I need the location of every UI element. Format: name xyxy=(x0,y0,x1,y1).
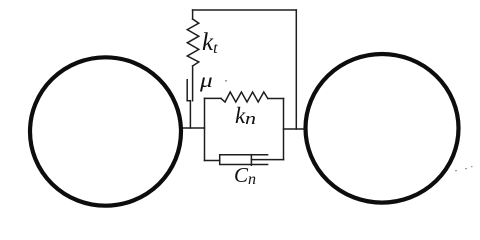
scan speckles xyxy=(225,80,473,171)
wire right contact line xyxy=(284,128,305,130)
wire right side of tangential loop xyxy=(295,10,297,129)
wire left vertical of normal branch xyxy=(204,98,206,160)
friction slider plate (mu) xyxy=(186,80,188,101)
wire left lead of spring kn xyxy=(205,97,222,99)
dashpot cn piston rod xyxy=(251,159,283,161)
dashpot cn cylinder xyxy=(220,155,268,165)
particle circle right xyxy=(306,54,459,203)
wire right vertical of normal branch xyxy=(283,99,285,160)
wire left contact line xyxy=(184,127,205,129)
wire rod from spring kt to slider xyxy=(192,66,194,101)
spring kt xyxy=(187,19,199,66)
spring kn xyxy=(221,92,268,102)
wire top of tangential loop xyxy=(193,9,297,11)
wire top lead of spring kt xyxy=(192,10,194,19)
label mu xyxy=(200,70,213,91)
label Cn xyxy=(234,165,256,186)
label kt xyxy=(202,30,218,55)
wire slider lower rod to contact line xyxy=(189,101,191,128)
label kn xyxy=(235,104,254,127)
dashpot cn piston plate xyxy=(250,155,252,166)
friction slider jog xyxy=(187,100,190,102)
wire left lead of dashpot cn xyxy=(205,160,220,162)
particle circle left xyxy=(30,57,181,205)
wire right lead of spring kn xyxy=(268,98,284,100)
